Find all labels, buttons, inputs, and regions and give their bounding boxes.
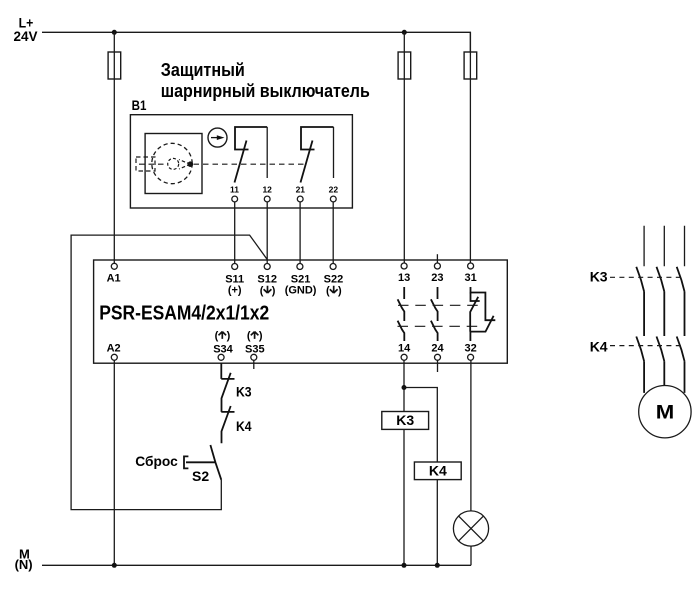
svg-text:): ) bbox=[259, 330, 263, 342]
svg-text:(: ( bbox=[326, 285, 330, 297]
svg-text:): ) bbox=[227, 330, 231, 342]
svg-text:11: 11 bbox=[230, 185, 239, 195]
svg-text:M: M bbox=[656, 401, 675, 423]
svg-text:шарнирный выключатель: шарнирный выключатель bbox=[161, 80, 370, 101]
svg-text:23: 23 bbox=[431, 272, 443, 284]
svg-text:B1: B1 bbox=[132, 97, 147, 113]
svg-text:31: 31 bbox=[464, 272, 476, 284]
svg-text:(: ( bbox=[247, 330, 251, 342]
svg-text:Защитный: Защитный bbox=[161, 59, 245, 80]
svg-text:K3: K3 bbox=[590, 269, 608, 285]
svg-text:S35: S35 bbox=[245, 343, 265, 355]
svg-text:(+): (+) bbox=[228, 285, 242, 297]
svg-text:K4: K4 bbox=[429, 463, 447, 479]
svg-text:(N): (N) bbox=[15, 557, 33, 572]
svg-text:Сброс: Сброс bbox=[135, 453, 178, 469]
svg-text:): ) bbox=[338, 285, 342, 297]
svg-text:K3: K3 bbox=[396, 412, 414, 428]
svg-text:22: 22 bbox=[329, 185, 339, 195]
svg-text:S12: S12 bbox=[257, 274, 277, 286]
svg-text:(: ( bbox=[260, 285, 264, 297]
svg-text:24: 24 bbox=[431, 343, 444, 355]
svg-text:K4: K4 bbox=[590, 338, 608, 354]
svg-text:12: 12 bbox=[262, 185, 272, 195]
svg-text:32: 32 bbox=[464, 343, 476, 355]
svg-text:(: ( bbox=[215, 330, 219, 342]
svg-text:): ) bbox=[272, 285, 276, 297]
svg-text:(GND): (GND) bbox=[285, 285, 317, 297]
svg-text:S2: S2 bbox=[192, 468, 209, 484]
svg-text:21: 21 bbox=[296, 185, 306, 195]
svg-text:24V: 24V bbox=[14, 29, 38, 44]
svg-text:S22: S22 bbox=[324, 274, 344, 286]
svg-text:13: 13 bbox=[398, 272, 410, 284]
svg-text:K3: K3 bbox=[236, 384, 252, 400]
svg-text:S34: S34 bbox=[213, 343, 233, 355]
svg-text:A1: A1 bbox=[107, 273, 121, 285]
svg-text:A2: A2 bbox=[107, 343, 121, 355]
svg-text:K4: K4 bbox=[236, 418, 252, 434]
svg-text:14: 14 bbox=[398, 343, 411, 355]
svg-text:L+: L+ bbox=[19, 15, 34, 31]
svg-text:PSR-ESAM4/2x1/1x2: PSR-ESAM4/2x1/1x2 bbox=[99, 302, 269, 324]
